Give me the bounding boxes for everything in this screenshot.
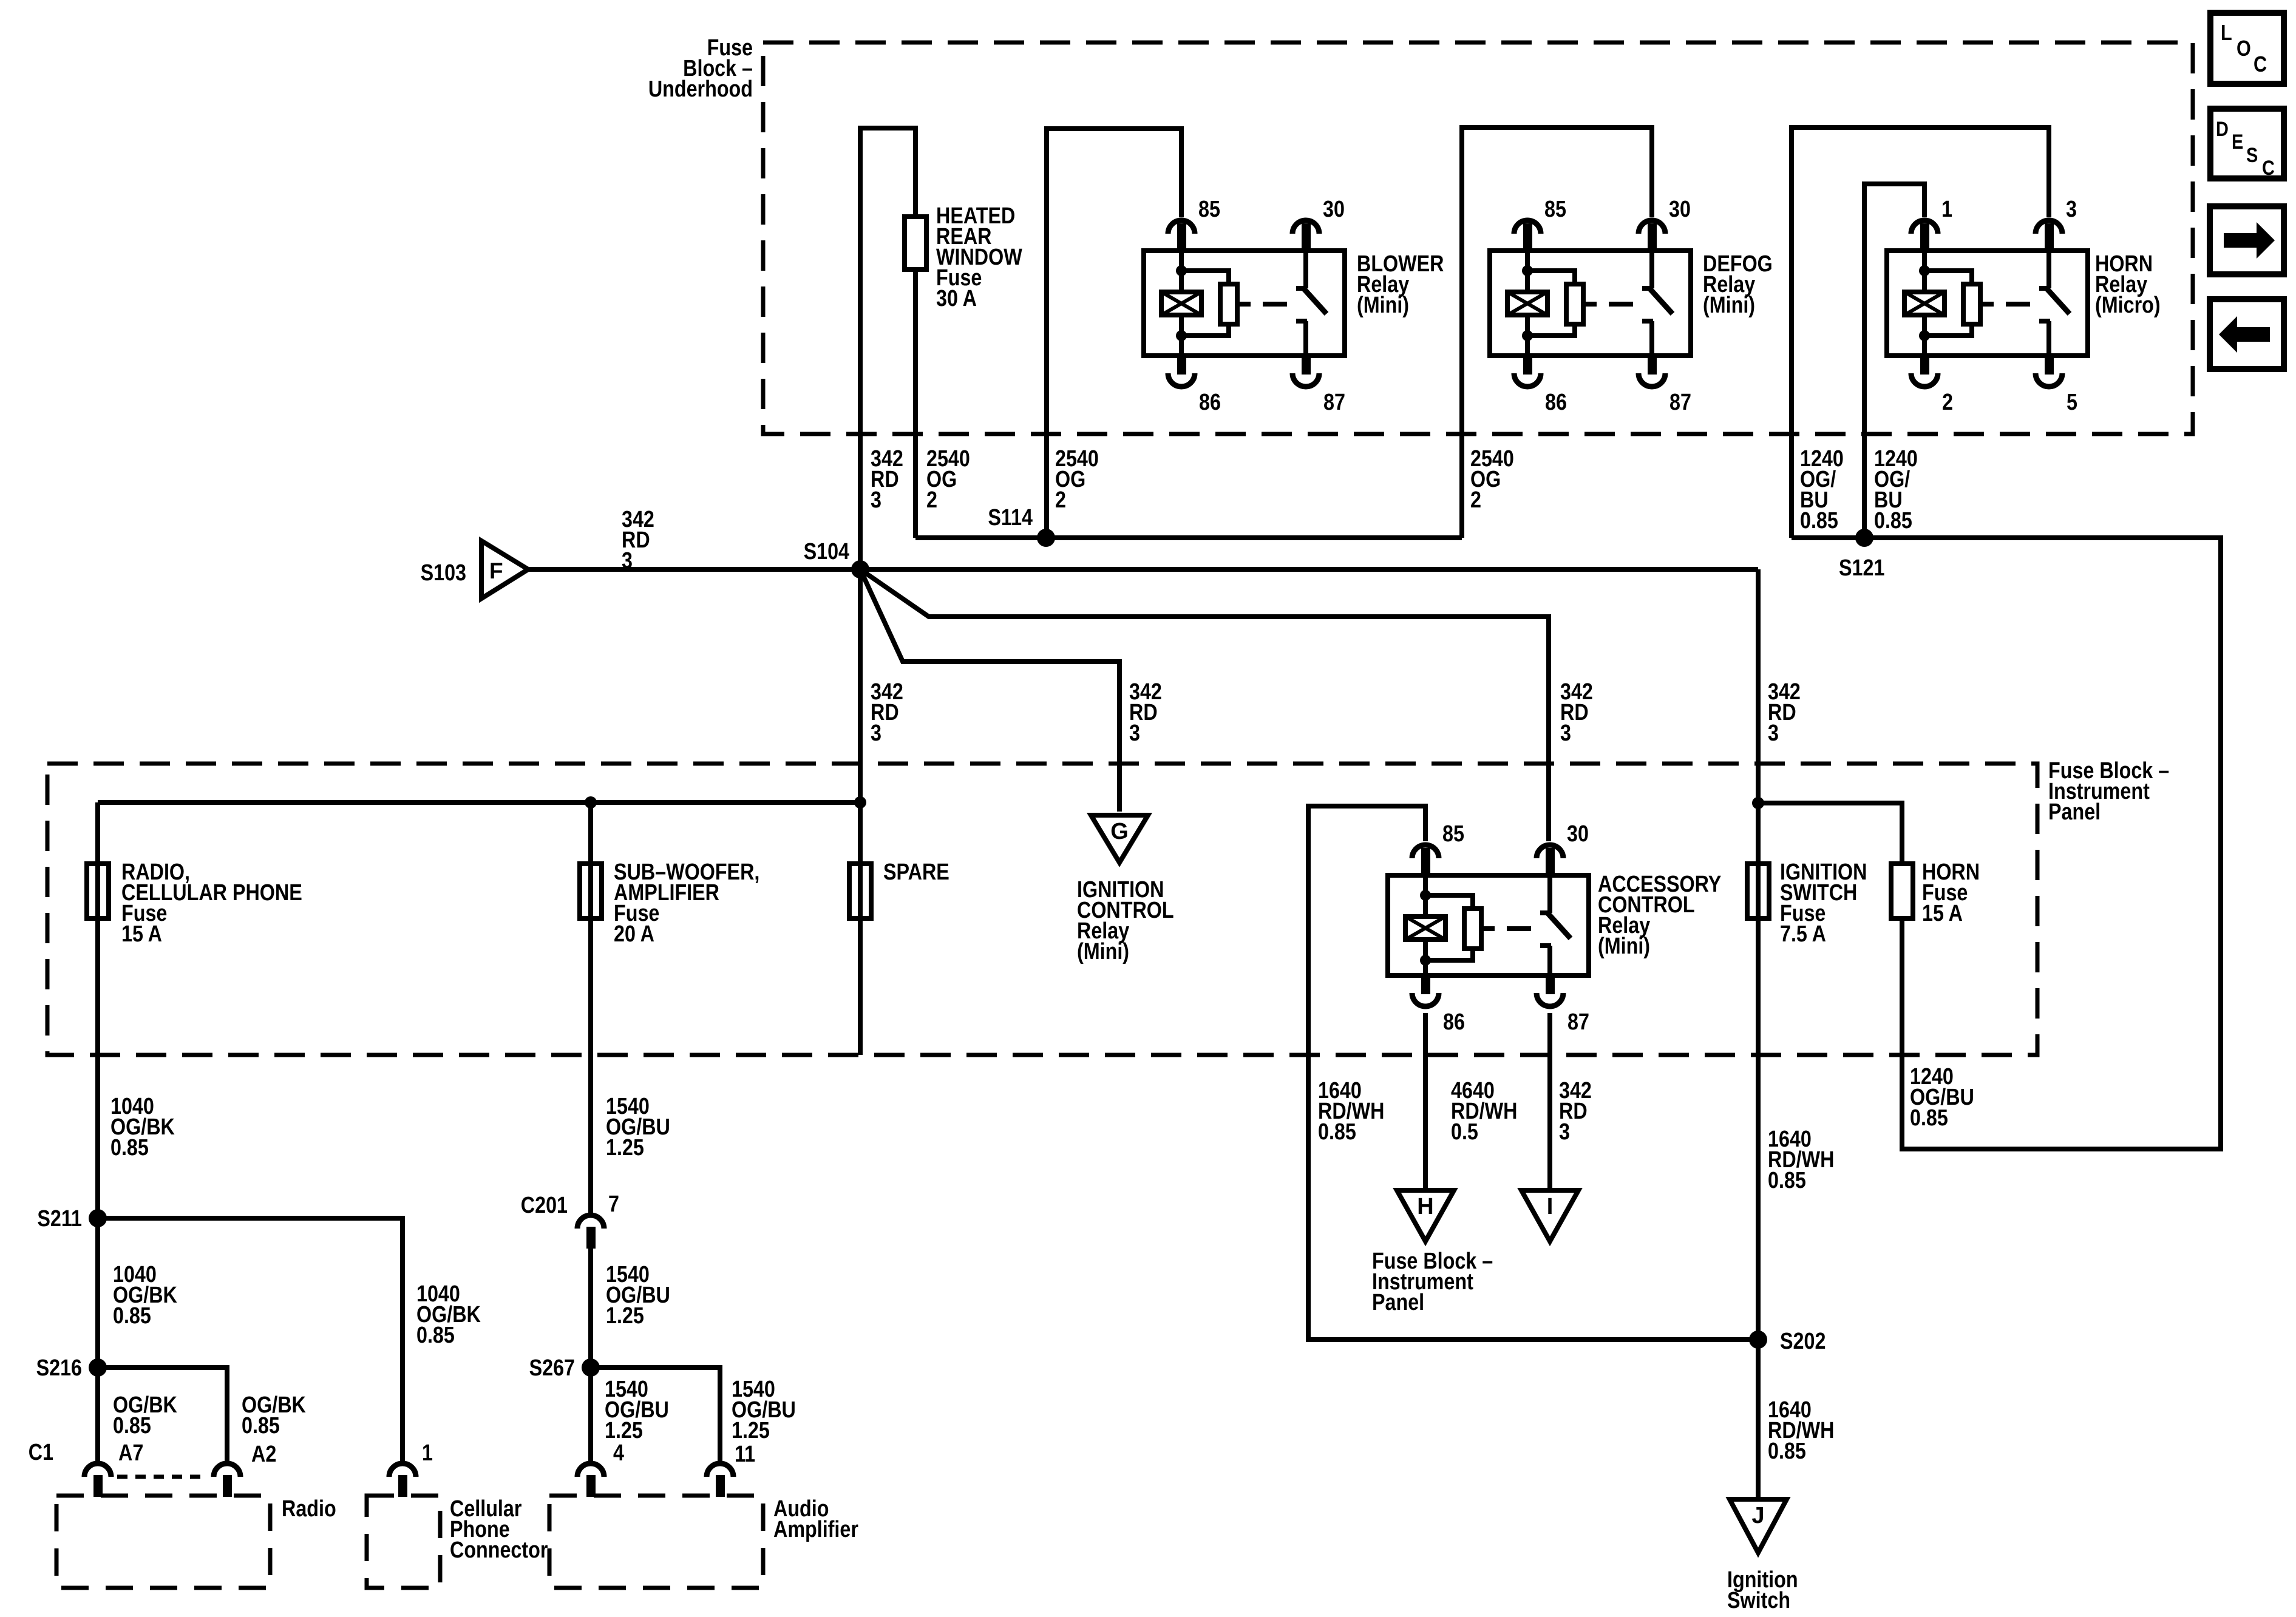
fuse SPARE — [849, 864, 871, 918]
svg-text:7: 7 — [608, 1192, 619, 1217]
svg-text:S: S — [2246, 143, 2258, 167]
svg-text:F: F — [489, 558, 503, 583]
Fuse Block - Instrument Panel dashed box — [47, 764, 2037, 1055]
wire S121 to HORN fuse — [1792, 538, 2221, 1149]
svg-text:S104: S104 — [804, 539, 850, 564]
wire 1540 OG/BU to C201 — [588, 918, 593, 1213]
svg-text:11: 11 — [735, 1442, 755, 1467]
Fuse Block - Underhood dashed box — [763, 42, 2193, 434]
svg-text:IgnitionSwitch: IgnitionSwitch — [1727, 1567, 1798, 1613]
svg-text:85: 85 — [1442, 821, 1464, 847]
connector G to ignition control relay — [1091, 815, 1148, 863]
svg-text:1: 1 — [1941, 197, 1952, 222]
fuse HEATED REAR WINDOW 30A — [905, 217, 926, 269]
svg-text:1: 1 — [422, 1440, 433, 1466]
svg-text:3: 3 — [2066, 197, 2077, 222]
svg-text:S202: S202 — [1780, 1329, 1826, 1354]
connector F from S103 — [481, 541, 528, 598]
svg-text:O: O — [2237, 37, 2251, 61]
splice S211 — [89, 1209, 107, 1227]
connector C1 pin A2 — [214, 1463, 240, 1477]
wire to HORN fuse — [1758, 803, 1902, 864]
svg-text:30: 30 — [1323, 197, 1345, 222]
wire 1540 OG/BU C201 to S267 — [588, 1248, 593, 1368]
wire 342 RD down through ignition switch fuse — [1756, 569, 1761, 1340]
svg-text:G: G — [1110, 819, 1129, 844]
connector audio amp pin 11 — [707, 1463, 733, 1477]
wire 2540 OG fuse output — [913, 269, 918, 538]
junction bus to SUB-WOOFER fuse — [585, 796, 597, 808]
dashed connector face C1 — [117, 1475, 208, 1479]
wire 2540 OG to blower relay pin 85 — [1047, 129, 1181, 538]
svg-text:L: L — [2221, 21, 2232, 46]
svg-text:A2: A2 — [251, 1442, 276, 1467]
connector C201 pin 7 — [577, 1215, 604, 1229]
svg-text:C: C — [2262, 156, 2275, 180]
wire 1540 OG/BU to audio amp pin 11 — [591, 1368, 720, 1461]
svg-text:85: 85 — [1544, 197, 1566, 222]
relay ACCESSORY CONTROL — [1388, 821, 1589, 1035]
svg-text:S103: S103 — [421, 560, 466, 586]
fuse HORN 15A — [1891, 864, 1913, 918]
svg-text:5: 5 — [2067, 390, 2077, 415]
svg-text:S211: S211 — [37, 1206, 82, 1232]
svg-text:H: H — [1417, 1194, 1433, 1219]
forward arrow box — [2210, 206, 2284, 274]
relay HORN — [1887, 197, 2088, 415]
relay DEFOG — [1490, 197, 1691, 415]
wire 1240 OG/BU to horn relay pin 1 — [1864, 184, 1924, 538]
splice S114 — [1037, 529, 1055, 547]
svg-text:S114: S114 — [988, 505, 1033, 531]
wire 342 RD to ignition control relay connector G — [860, 569, 1119, 812]
LOC box — [2210, 13, 2284, 84]
wire 4640 RD/WH acc pin 86 to H — [1423, 1013, 1428, 1190]
svg-text:C: C — [2254, 53, 2267, 77]
svg-text:4: 4 — [613, 1440, 624, 1466]
wire 2540 OG to defog relay pin 30 — [1462, 127, 1652, 538]
wire S114 bus 2540 OG — [915, 535, 1462, 540]
splice S216 — [89, 1358, 107, 1377]
wire 1640 RD/WH to J — [1756, 1340, 1761, 1499]
svg-text:87: 87 — [1323, 390, 1345, 415]
connector audio amp pin 4 — [577, 1463, 604, 1477]
wire to SUB-WOOFER fuse — [588, 802, 593, 918]
junction bus at SPARE wire — [854, 796, 866, 808]
wire 342 RD to accessory control relay pin 30 — [860, 569, 1549, 841]
connector C1 pin A7 — [84, 1463, 111, 1477]
svg-text:S121: S121 — [1839, 555, 1884, 581]
connector cellular phone pin 1 — [389, 1463, 416, 1477]
wire IP fuse bus 342 RD — [98, 800, 860, 805]
wire OG/BK to radio pin A2 — [98, 1368, 227, 1461]
fuse RADIO CELLULAR PHONE 15A — [87, 864, 109, 918]
DESC box — [2210, 109, 2284, 180]
wire 1040 OG/BK to cellular phone connector — [98, 1218, 402, 1461]
wire acc relay pin 85 loop to S202 — [1308, 806, 1758, 1340]
svg-text:S267: S267 — [529, 1355, 575, 1381]
svg-text:30: 30 — [1567, 821, 1589, 847]
svg-text:I: I — [1547, 1194, 1554, 1219]
splice S104 — [851, 560, 869, 578]
Cellular Phone Connector dashed box — [367, 1496, 440, 1588]
wire through SPARE fuse — [858, 802, 863, 1055]
wire to RADIO fuse — [95, 802, 100, 918]
svg-text:Radio: Radio — [282, 1496, 336, 1522]
wire 342 RD acc pin 87 to I — [1547, 1013, 1552, 1190]
svg-text:A7: A7 — [118, 1440, 143, 1466]
svg-text:86: 86 — [1199, 390, 1221, 415]
splice S267 — [582, 1358, 600, 1377]
fuse IGNITION SWITCH 7.5A — [1747, 864, 1769, 918]
svg-text:87: 87 — [1669, 390, 1691, 415]
connector J to ignition switch — [1730, 1499, 1787, 1553]
svg-text:D: D — [2216, 117, 2229, 141]
svg-text:J: J — [1751, 1503, 1764, 1528]
svg-text:2: 2 — [1942, 390, 1953, 415]
junction to HORN fuse — [1752, 797, 1764, 809]
wire S103-F to S104 and on to ignition switch fuse — [528, 567, 1758, 572]
Audio Amplifier dashed box — [549, 1496, 763, 1588]
splice S202 — [1749, 1331, 1767, 1349]
svg-text:E: E — [2232, 130, 2243, 154]
svg-text:87: 87 — [1567, 1009, 1589, 1035]
wire 342 RD feed to HTD REAR WINDOW fuse — [860, 128, 915, 569]
splice S121 — [1855, 529, 1873, 547]
svg-text:86: 86 — [1443, 1009, 1465, 1035]
svg-text:S216: S216 — [36, 1355, 82, 1381]
svg-text:C201: C201 — [521, 1193, 568, 1218]
back arrow box — [2210, 299, 2284, 369]
connector I to fuse block IP — [1521, 1190, 1578, 1241]
connector H to fuse block IP — [1397, 1190, 1454, 1241]
wire OG/BK to radio pin A7 — [95, 1368, 100, 1461]
svg-text:85: 85 — [1198, 197, 1220, 222]
svg-text:SPARE: SPARE — [883, 859, 949, 885]
Radio dashed box — [56, 1496, 270, 1588]
svg-text:C1: C1 — [29, 1440, 53, 1465]
fuse SUB-WOOFER AMPLIFIER 20A — [580, 864, 602, 918]
relay BLOWER — [1144, 197, 1345, 415]
wire 342 RD S104 down to IP fuse block — [858, 569, 863, 802]
svg-text:30: 30 — [1669, 197, 1691, 222]
wire 1040 OG/BK radio fuse output — [95, 918, 100, 1368]
wire 1240 OG/BU to horn relay pin 3 — [1792, 127, 2049, 538]
wire 1540 OG/BU to audio amp pin 4 — [588, 1368, 593, 1461]
svg-text:86: 86 — [1545, 390, 1567, 415]
